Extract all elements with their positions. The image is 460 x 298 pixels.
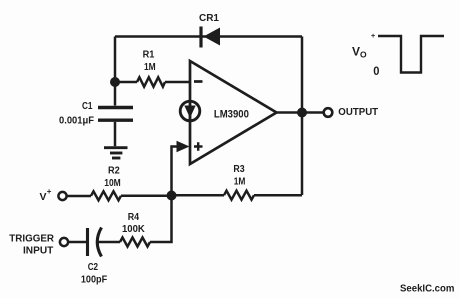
wire: R1 to inverting input of U1 bbox=[165, 81, 190, 84]
svg-text:V: V bbox=[40, 191, 47, 203]
resistor R3 bbox=[224, 191, 254, 200]
wire: top feedback horizontal from node A column to right vertical bbox=[115, 35, 302, 38]
svg-text:O: O bbox=[360, 50, 367, 60]
output node junction dot bbox=[297, 108, 307, 118]
svg-text:1M: 1M bbox=[234, 176, 246, 187]
svg-text:C2: C2 bbox=[88, 262, 99, 273]
resistor R2 bbox=[91, 191, 121, 200]
svg-text:LM3900: LM3900 bbox=[214, 108, 249, 120]
resistor R1 bbox=[137, 77, 165, 86]
svg-text:R2: R2 bbox=[108, 166, 120, 177]
output waveform pulse trace bbox=[378, 36, 444, 73]
wire: V+ terminal to resistor R2 bbox=[67, 195, 91, 198]
svg-text:+: + bbox=[47, 187, 52, 196]
op-amp U1 LM3900 triangle bbox=[190, 61, 277, 164]
wire: right vertical from top wire down through output node to R3 line bbox=[301, 37, 304, 196]
U1 non-inverting input plus sign bbox=[194, 142, 203, 150]
capacitor C2 bbox=[88, 228, 102, 257]
svg-text:V: V bbox=[352, 45, 360, 59]
output terminal bbox=[324, 108, 333, 117]
wire: op-amp output to output terminal bbox=[277, 111, 324, 114]
TRIGGER INPUT terminal bbox=[60, 238, 68, 246]
diode CR1 bbox=[201, 27, 220, 48]
wire: left vertical from top wire down to node A bbox=[114, 37, 117, 83]
svg-text:R4: R4 bbox=[128, 212, 140, 223]
wire: node B to resistor R3 bbox=[172, 194, 225, 197]
svg-text:C1: C1 bbox=[82, 101, 93, 112]
svg-text:0: 0 bbox=[373, 64, 379, 78]
svg-text:1M: 1M bbox=[144, 62, 156, 73]
wire: R4 right then up to node B bbox=[150, 196, 172, 243]
ground symbol bbox=[104, 148, 128, 158]
wire: C2 to resistor R4 bbox=[96, 241, 120, 244]
wire: vertical from node B up to plus input bbox=[172, 147, 178, 196]
resistor R4 bbox=[120, 238, 150, 247]
U1 internal current source (Norton) bbox=[180, 101, 200, 121]
U1 inverting input minus sign bbox=[194, 80, 203, 83]
svg-text:R1: R1 bbox=[143, 50, 155, 61]
svg-text:0.001μF: 0.001μF bbox=[59, 116, 94, 127]
svg-text:TRIGGER: TRIGGER bbox=[9, 234, 54, 245]
svg-text:100pF: 100pF bbox=[81, 274, 107, 285]
wire: trigger terminal to C2 bbox=[68, 241, 86, 244]
svg-text:+: + bbox=[371, 31, 376, 40]
wire: R3 to right vertical bbox=[254, 194, 302, 197]
svg-text:SeekIC.com: SeekIC.com bbox=[400, 284, 454, 295]
svg-text:INPUT: INPUT bbox=[23, 246, 53, 257]
wire: R2 to node B bbox=[121, 195, 172, 198]
node A junction dot bbox=[110, 77, 120, 87]
svg-text:OUTPUT: OUTPUT bbox=[338, 107, 378, 118]
svg-text:R3: R3 bbox=[233, 164, 245, 175]
svg-text:100K: 100K bbox=[122, 224, 146, 235]
svg-text:CR1: CR1 bbox=[199, 13, 219, 24]
wire: node A to resistor R1 bbox=[115, 81, 137, 84]
V+ input terminal bbox=[58, 192, 66, 200]
plus input current arrow bbox=[177, 141, 190, 152]
svg-text:10M: 10M bbox=[104, 178, 121, 189]
node B junction dot bbox=[167, 191, 177, 201]
capacitor C1 bbox=[98, 82, 133, 146]
